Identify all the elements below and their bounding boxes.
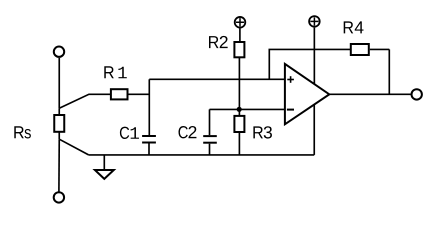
junction dot <box>237 107 242 112</box>
wire: positive feedback from + line up to R4 <box>269 49 350 79</box>
label R1 <box>104 66 126 78</box>
resistor R2 <box>234 42 244 109</box>
resistor R1 <box>111 89 149 99</box>
wire: Rs bottom node down to terminal <box>58 139 60 192</box>
wire: output <box>329 93 410 95</box>
wire: diagonal node to R1 <box>59 94 110 108</box>
label R4 <box>344 21 364 33</box>
capacitor C2 <box>203 109 217 154</box>
wire: op-amp V- pin down to ground bus <box>313 105 315 155</box>
wire: inverting input line <box>210 108 285 110</box>
capacitor C1 <box>142 136 156 155</box>
label R2 <box>209 36 228 48</box>
resistor R3 <box>234 109 244 155</box>
wire: feedback down to output node <box>388 49 390 94</box>
wire: vertical node joining R1, C1 and + line <box>148 79 150 135</box>
label C2 <box>179 126 197 138</box>
resistor R4 <box>351 44 390 55</box>
power symbol +V at op-amp <box>309 16 320 84</box>
wire: diagonal Rs bottom to ground bus <box>59 139 88 155</box>
wire: ground bus <box>89 154 315 156</box>
ground symbol <box>95 155 114 179</box>
op-amp U1 <box>285 64 329 124</box>
wire: non-inverting input line <box>149 78 285 80</box>
terminal P1 (top-left input) <box>54 47 64 57</box>
power symbol +V above R2 <box>235 17 246 42</box>
resistor Rs <box>54 108 64 139</box>
label R3 <box>253 126 272 138</box>
label C1 <box>120 127 139 139</box>
terminal P3 (output) <box>412 89 422 99</box>
wire: top terminal to Rs node <box>58 58 60 108</box>
label Rs <box>14 126 31 138</box>
terminal P2 (bottom-left input) <box>54 192 64 202</box>
